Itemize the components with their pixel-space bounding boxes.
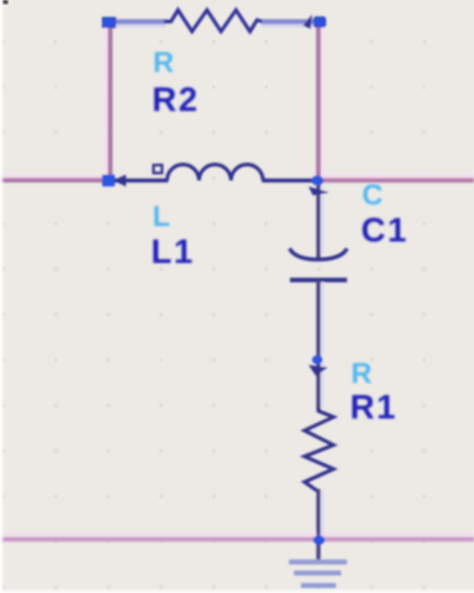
pin arrow below R1 top node: [309, 365, 328, 376]
pin arrow at top-right node: [303, 15, 312, 29]
inductor L1 pin-1 marker: [154, 165, 163, 173]
wire: right vertical net (R2 pin2 down to C1 node): [321, 25, 325, 178]
wire: mid-left horizontal net: [0, 175, 104, 179]
junction dot at R1 top node: [312, 355, 322, 364]
svg-text:R: R: [351, 358, 372, 390]
svg-text:C1: C1: [361, 212, 408, 250]
wire: R2 to top-right node: [261, 24, 315, 27]
pin arrow at mid-left node: [113, 175, 126, 187]
junction square top-left: [103, 18, 116, 28]
left edge white strip: [0, 0, 5, 593]
wire: R1 to bottom net: [321, 491, 324, 538]
wire: ground stub: [316, 540, 320, 563]
resistor R1: [305, 408, 334, 491]
svg-text:R: R: [153, 47, 174, 79]
svg-text:L: L: [153, 201, 171, 233]
resistor R2: [164, 10, 262, 32]
junction dot at bottom net: [313, 535, 325, 544]
wire: L1 left lead: [115, 179, 168, 183]
wire: C1 bottom lead: [321, 282, 324, 354]
wire: left vertical net (R2 pin1 to L1 node): [104, 25, 108, 178]
capacitor C1 straight plate: [290, 278, 347, 283]
wire: top-left lead to R2: [112, 24, 166, 27]
wire: node to R1: [321, 362, 324, 408]
svg-text:L1: L1: [151, 233, 195, 271]
svg-text:R1: R1: [350, 389, 397, 427]
junction square top-right: [314, 17, 326, 27]
bottom edge white strip: [0, 588, 474, 593]
wire: bottom horizontal net: [0, 533, 474, 536]
inductor L1: [167, 165, 263, 181]
junction dot at C1 top node: [312, 176, 324, 186]
pin arrow below C1 top node: [309, 187, 330, 196]
junction square mid-left: [102, 175, 115, 187]
wire: mid-right horizontal net: [323, 175, 474, 179]
ground: [289, 562, 347, 586]
wire: L1 right lead: [262, 179, 320, 183]
stray dark mark top-left corner: [3, 0, 8, 4]
svg-text:R2: R2: [152, 81, 199, 119]
wire: C1 top lead: [321, 186, 324, 254]
capacitor C1 curved plate: [290, 249, 348, 260]
svg-text:C: C: [362, 180, 383, 212]
